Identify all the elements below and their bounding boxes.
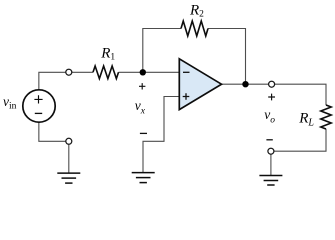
resistor R1 bbox=[93, 66, 119, 79]
voltage source vin bbox=[23, 90, 55, 122]
wire: lower-left terminal down to left ground bbox=[68, 144, 70, 172]
ground: right bbox=[259, 176, 282, 186]
node: output junction bbox=[242, 81, 248, 87]
label - polarity of vx bbox=[140, 132, 147, 134]
resistor R2 bbox=[181, 21, 208, 36]
ground: left bbox=[57, 173, 80, 183]
terminal: vo upper open circle bbox=[269, 81, 275, 87]
label - polarity of vo bbox=[266, 139, 272, 141]
wire: RL bottom lead and bottom run to lower vo terminal bbox=[274, 129, 326, 151]
wire: source top lead up and right to input terminal bbox=[39, 72, 66, 90]
resistor RL bbox=[321, 105, 331, 129]
label + polarity of vx bbox=[139, 83, 145, 89]
ground: middle bbox=[132, 173, 155, 183]
op-amp U1 bbox=[179, 59, 221, 110]
terminal: lower-left open circle bbox=[66, 138, 72, 144]
wire: R1 to inverting-input node bbox=[119, 71, 180, 73]
terminal: vo lower open circle bbox=[268, 148, 274, 154]
wire: input terminal to R1 bbox=[72, 71, 93, 73]
wire: non-inverting input to middle ground bbox=[143, 97, 179, 173]
node: inverting input junction bbox=[140, 69, 146, 75]
wire: feedback loop left vertical and top run to R2 bbox=[143, 29, 181, 73]
terminal: input open circle bbox=[66, 69, 72, 75]
wire: lower vo terminal down to right ground bbox=[270, 154, 272, 175]
wire: R2 to right vertical of feedback loop down to output node bbox=[208, 29, 246, 85]
wire: source bottom lead down and right to lower-left terminal bbox=[39, 122, 66, 141]
wire: op-amp output to vo terminal and right corner bbox=[222, 83, 269, 85]
label + polarity of vo bbox=[268, 94, 275, 101]
